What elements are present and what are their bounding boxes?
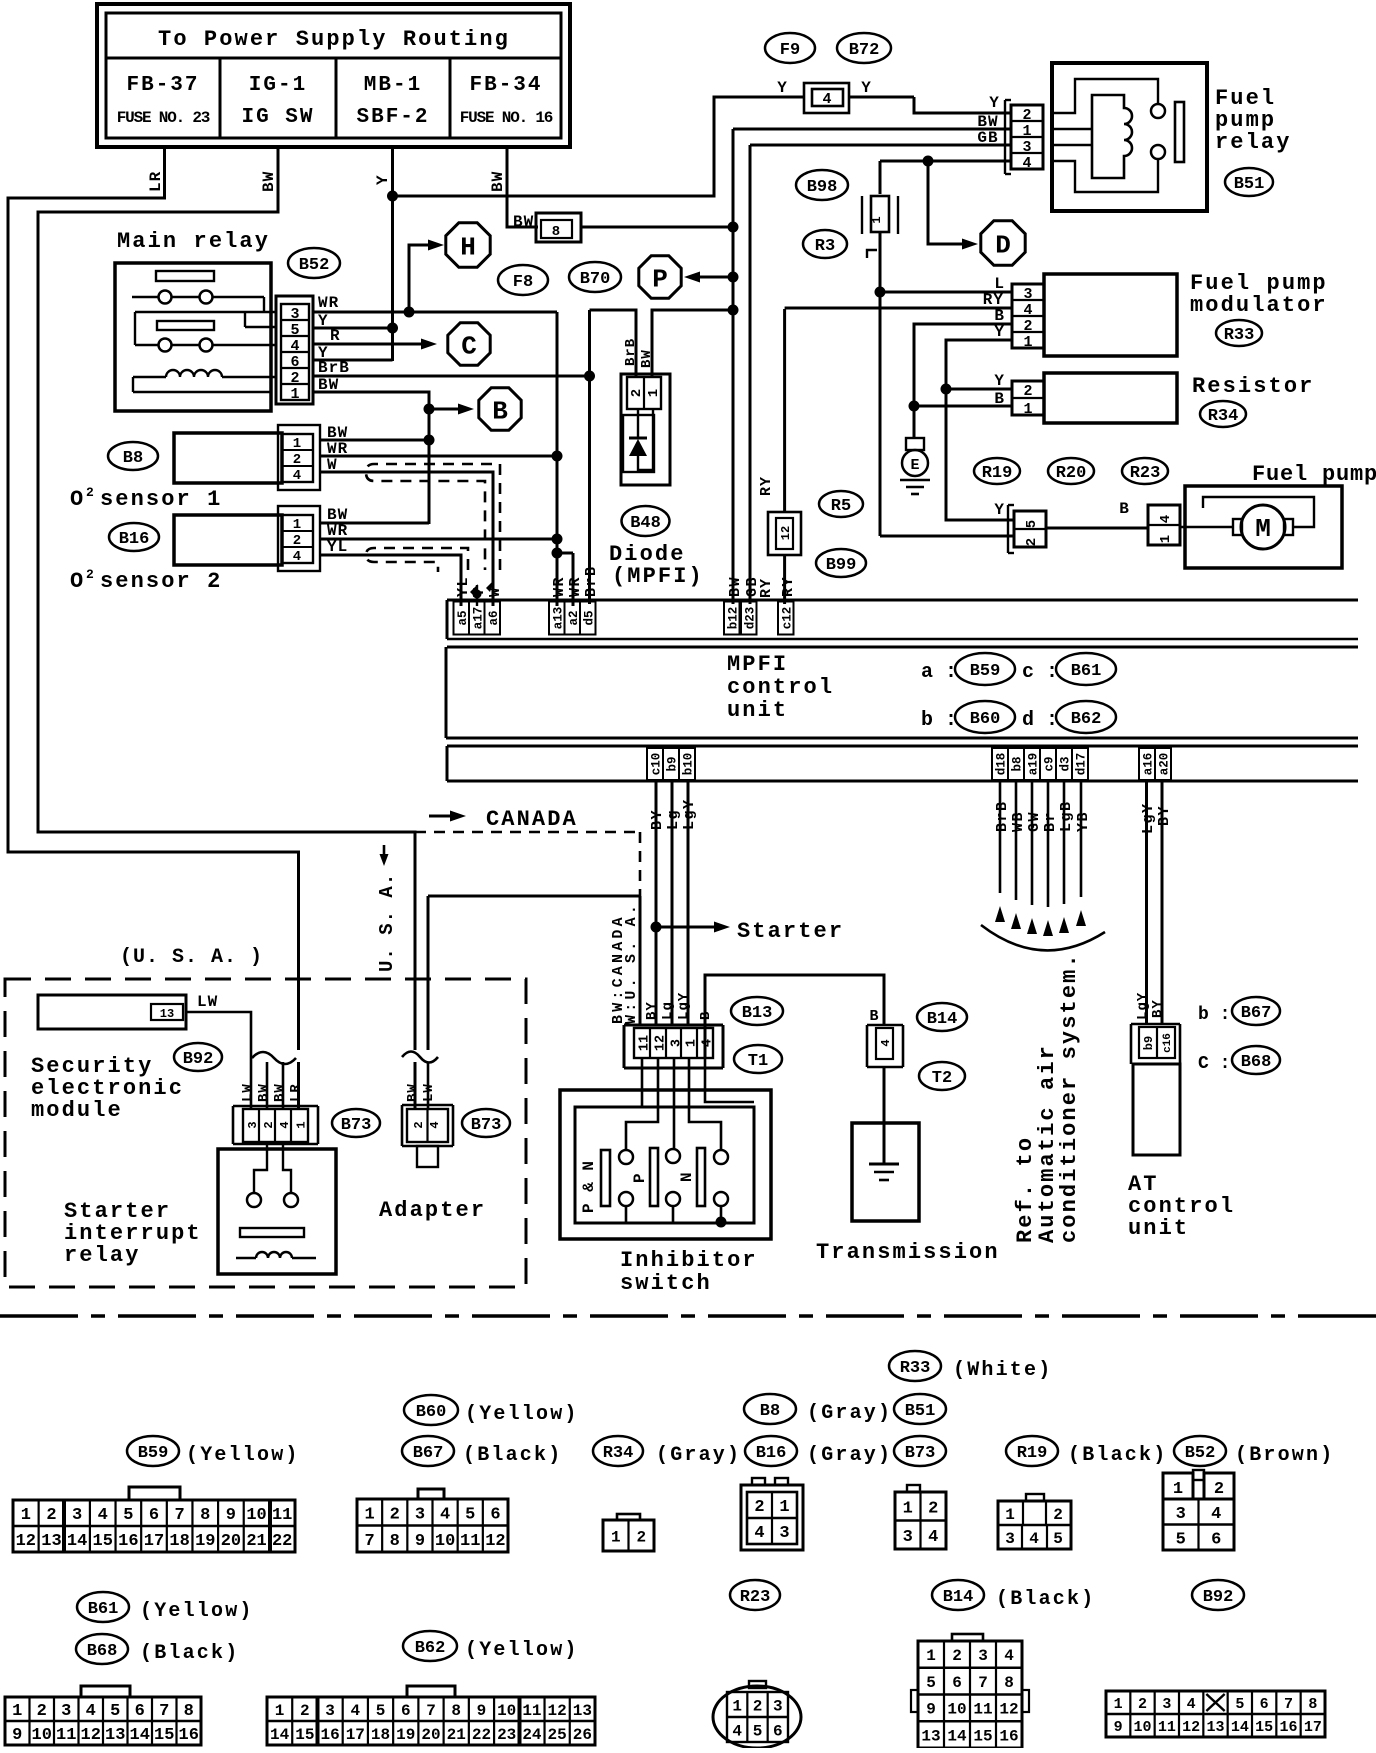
svg-text:2: 2 <box>754 1498 764 1517</box>
svg-text:LgY: LgY <box>1135 992 1151 1020</box>
svg-text:1: 1 <box>1023 334 1032 351</box>
svg-text:c10: c10 <box>650 753 664 776</box>
svg-text:2: 2 <box>37 1702 47 1721</box>
svg-text:10: 10 <box>947 1701 966 1719</box>
svg-text:12: 12 <box>999 1701 1018 1719</box>
svg-text:B59: B59 <box>138 1444 169 1463</box>
svg-text:16: 16 <box>999 1727 1018 1745</box>
svg-text:4: 4 <box>440 1505 450 1524</box>
svg-text:BY: BY <box>1150 999 1166 1018</box>
svg-text:B14: B14 <box>943 1588 974 1607</box>
svg-text:d23: d23 <box>743 607 757 630</box>
svg-text:3: 3 <box>290 306 299 323</box>
svg-text:6: 6 <box>1211 1530 1221 1549</box>
svg-text:6: 6 <box>135 1702 145 1721</box>
svg-text:9: 9 <box>226 1506 236 1525</box>
svg-text:22: 22 <box>272 1532 292 1551</box>
svg-text:1: 1 <box>275 1702 285 1720</box>
svg-text:22: 22 <box>472 1726 491 1744</box>
svg-text:BW: BW <box>256 1083 272 1102</box>
svg-text:4: 4 <box>1029 1530 1039 1548</box>
svg-text:1: 1 <box>293 436 301 452</box>
svg-text:Starter: Starter <box>737 919 844 944</box>
svg-text:20: 20 <box>221 1532 241 1551</box>
svg-text:BrB: BrB <box>318 359 350 377</box>
svg-text:BW: BW <box>405 1083 421 1102</box>
svg-text:IG-1: IG-1 <box>249 74 307 97</box>
svg-text:15: 15 <box>93 1532 113 1551</box>
svg-text:b8: b8 <box>1011 756 1025 771</box>
svg-text:1: 1 <box>1023 401 1032 418</box>
svg-text:(Yellow): (Yellow) <box>140 1600 254 1623</box>
svg-text:FB-37: FB-37 <box>126 74 199 97</box>
svg-text:B52: B52 <box>299 256 330 275</box>
svg-text:11: 11 <box>522 1702 541 1720</box>
svg-text:(Black): (Black) <box>463 1444 562 1467</box>
svg-text:module: module <box>31 1098 123 1123</box>
svg-text:R20: R20 <box>1056 464 1087 483</box>
svg-text:11: 11 <box>272 1506 292 1525</box>
svg-text:5: 5 <box>753 1722 763 1740</box>
svg-text:15: 15 <box>973 1727 992 1745</box>
svg-text:(Black): (Black) <box>996 1588 1095 1611</box>
svg-text:O: O <box>70 487 83 512</box>
svg-text:conditioner system.: conditioner system. <box>1057 952 1082 1243</box>
svg-text:13: 13 <box>1206 1719 1224 1736</box>
svg-text:W: W <box>487 586 504 597</box>
svg-text:8: 8 <box>552 224 560 240</box>
svg-text:B92: B92 <box>1203 1588 1234 1607</box>
svg-text:B62: B62 <box>1071 710 1102 729</box>
svg-text:2: 2 <box>86 567 94 582</box>
svg-text:11: 11 <box>973 1701 992 1719</box>
svg-text:b10: b10 <box>682 753 696 776</box>
svg-text:CANADA: CANADA <box>486 807 578 832</box>
svg-text:12: 12 <box>654 1035 669 1051</box>
svg-text:2: 2 <box>952 1647 962 1665</box>
svg-text:19: 19 <box>195 1532 215 1551</box>
svg-text:BrB: BrB <box>583 565 600 597</box>
svg-text:O: O <box>70 569 83 594</box>
svg-text:B60: B60 <box>416 1403 447 1422</box>
svg-text:7: 7 <box>426 1702 436 1720</box>
svg-text:16: 16 <box>179 1726 199 1745</box>
svg-text:4: 4 <box>879 1039 893 1046</box>
svg-text:YL: YL <box>455 576 472 597</box>
svg-text:B51: B51 <box>1234 175 1265 194</box>
svg-text:26: 26 <box>573 1726 592 1744</box>
svg-text:3: 3 <box>72 1506 82 1525</box>
svg-text:WR: WR <box>567 576 584 597</box>
svg-text:3: 3 <box>670 1039 685 1047</box>
svg-text:a6: a6 <box>487 610 501 625</box>
svg-text:a20: a20 <box>1158 753 1172 776</box>
svg-text:15: 15 <box>1255 1719 1273 1736</box>
svg-text:1: 1 <box>293 517 301 533</box>
svg-text:19: 19 <box>396 1726 415 1744</box>
svg-text:N: N <box>678 1172 696 1182</box>
svg-text:d17: d17 <box>1075 753 1089 776</box>
svg-text:R19: R19 <box>1017 1444 1048 1463</box>
svg-text:12: 12 <box>779 526 793 540</box>
svg-text:LW: LW <box>421 1083 437 1102</box>
svg-text:2: 2 <box>262 1121 276 1128</box>
svg-text:a5: a5 <box>456 610 470 625</box>
svg-text:modulator: modulator <box>1190 293 1328 318</box>
svg-text:LgY: LgY <box>1140 802 1157 834</box>
svg-text:2: 2 <box>300 1702 310 1720</box>
svg-text:4: 4 <box>293 549 301 565</box>
svg-text:LgY: LgY <box>676 992 692 1020</box>
svg-text:5: 5 <box>1053 1530 1063 1548</box>
svg-text:2: 2 <box>636 1528 646 1546</box>
svg-text:relay: relay <box>64 1243 141 1268</box>
svg-text:2: 2 <box>1214 1480 1224 1499</box>
svg-text:a :: a : <box>921 661 957 684</box>
svg-text:Fuel pump: Fuel pump <box>1252 462 1376 487</box>
svg-text:B72: B72 <box>849 41 880 60</box>
svg-text:B68: B68 <box>87 1642 118 1661</box>
svg-text:Y: Y <box>994 501 1004 519</box>
svg-text:B99: B99 <box>826 556 857 575</box>
svg-text:E: E <box>910 457 919 474</box>
svg-text:1: 1 <box>779 1498 789 1517</box>
svg-text:sensor 2: sensor 2 <box>100 569 222 594</box>
svg-text:c12: c12 <box>780 607 794 630</box>
svg-text:LgY: LgY <box>681 798 698 830</box>
svg-text:2: 2 <box>629 389 645 397</box>
svg-text:a19: a19 <box>1027 753 1041 776</box>
svg-text:T2: T2 <box>932 1069 952 1088</box>
svg-text:LR: LR <box>147 171 165 192</box>
svg-text:2: 2 <box>412 1121 426 1128</box>
svg-text:17: 17 <box>1304 1719 1322 1736</box>
svg-text:8: 8 <box>1308 1696 1317 1713</box>
svg-text:LW: LW <box>197 993 218 1011</box>
svg-text:13: 13 <box>41 1532 61 1551</box>
svg-text:BW: BW <box>727 576 744 597</box>
svg-text:20: 20 <box>421 1726 440 1744</box>
svg-text:Br: Br <box>1042 811 1059 832</box>
svg-text:P & N: P & N <box>580 1160 598 1213</box>
svg-text:4: 4 <box>351 1702 361 1720</box>
svg-text:WR: WR <box>551 576 568 597</box>
svg-text:1: 1 <box>926 1647 936 1665</box>
svg-text:Y: Y <box>994 323 1004 341</box>
svg-text:B70: B70 <box>580 270 611 289</box>
svg-text:switch: switch <box>620 1271 712 1296</box>
svg-text:7: 7 <box>159 1702 169 1721</box>
svg-text:Resistor: Resistor <box>1192 374 1314 399</box>
svg-text:3: 3 <box>415 1505 425 1524</box>
svg-text:3: 3 <box>1023 286 1032 303</box>
svg-text:B73: B73 <box>905 1444 936 1463</box>
svg-text:4: 4 <box>1211 1505 1221 1524</box>
svg-text:25: 25 <box>548 1726 567 1744</box>
svg-text:14: 14 <box>67 1532 87 1551</box>
svg-text:3: 3 <box>1162 1696 1171 1713</box>
svg-text:B14: B14 <box>927 1010 958 1029</box>
svg-text:21: 21 <box>246 1532 266 1551</box>
svg-text:6: 6 <box>490 1505 500 1524</box>
svg-text:16: 16 <box>1279 1719 1297 1736</box>
svg-text:13: 13 <box>921 1727 940 1745</box>
svg-text:6: 6 <box>401 1702 411 1720</box>
svg-text:10: 10 <box>497 1702 516 1720</box>
svg-text:6: 6 <box>290 354 299 371</box>
svg-text:R33: R33 <box>900 1359 931 1378</box>
svg-text:1: 1 <box>1158 535 1174 543</box>
svg-text:12: 12 <box>485 1532 505 1551</box>
svg-text:8: 8 <box>184 1702 194 1721</box>
svg-text:Y: Y <box>989 94 999 112</box>
svg-text:To Power Supply Routing: To Power Supply Routing <box>158 27 510 52</box>
svg-text:5: 5 <box>1235 1696 1244 1713</box>
svg-text:9: 9 <box>1114 1719 1123 1736</box>
svg-text:c16: c16 <box>1162 1033 1174 1053</box>
svg-text:Y: Y <box>994 372 1004 390</box>
svg-text:a16: a16 <box>1142 753 1156 776</box>
svg-text:21: 21 <box>447 1726 466 1744</box>
svg-text:6: 6 <box>1260 1696 1269 1713</box>
svg-text:BW: BW <box>489 171 507 192</box>
svg-text:(Gray): (Gray) <box>807 1444 892 1467</box>
svg-text:3: 3 <box>325 1702 335 1720</box>
svg-text:1: 1 <box>611 1528 621 1546</box>
svg-text:(U. S. A. ): (U. S. A. ) <box>120 946 263 969</box>
svg-text:4: 4 <box>1022 155 1031 172</box>
svg-text:WB: WB <box>1010 811 1027 832</box>
svg-text:C: C <box>461 331 477 361</box>
svg-text:1: 1 <box>1022 123 1031 140</box>
svg-text:GW: GW <box>1026 811 1043 832</box>
svg-text:b :: b : <box>921 709 957 732</box>
svg-text:B52: B52 <box>1185 1444 1216 1463</box>
svg-text:6: 6 <box>149 1506 159 1525</box>
svg-text:2: 2 <box>1053 1506 1063 1524</box>
svg-text:control: control <box>727 675 834 700</box>
svg-text:(White): (White) <box>953 1359 1052 1382</box>
svg-text:B16: B16 <box>756 1444 787 1463</box>
svg-text:LW: LW <box>240 1083 256 1102</box>
svg-text:C :: C : <box>1198 1054 1230 1074</box>
svg-text:a2: a2 <box>567 610 581 625</box>
svg-text:7: 7 <box>175 1506 185 1525</box>
svg-text:1: 1 <box>12 1702 22 1721</box>
svg-text:14: 14 <box>1231 1719 1249 1736</box>
svg-text:17: 17 <box>144 1532 164 1551</box>
svg-text:13: 13 <box>573 1702 592 1720</box>
svg-text:Lg: Lg <box>660 1001 676 1020</box>
svg-text:d18: d18 <box>995 753 1009 776</box>
svg-text:B67: B67 <box>1241 1004 1272 1023</box>
svg-text:11: 11 <box>1158 1719 1176 1736</box>
svg-text:Adapter: Adapter <box>379 1198 486 1223</box>
svg-text:7: 7 <box>978 1674 988 1692</box>
svg-text:1: 1 <box>870 216 884 223</box>
svg-text:B16: B16 <box>119 530 150 549</box>
svg-text:2: 2 <box>1023 318 1032 335</box>
svg-text:R34: R34 <box>603 1444 634 1463</box>
svg-text:B: B <box>994 390 1004 408</box>
svg-text:10: 10 <box>32 1726 52 1745</box>
svg-text:11: 11 <box>638 1035 653 1051</box>
svg-text:2: 2 <box>390 1505 400 1524</box>
svg-text:a13: a13 <box>551 607 565 630</box>
svg-text:4: 4 <box>1158 515 1174 523</box>
svg-text:(Black): (Black) <box>140 1642 239 1665</box>
svg-text:IG SW: IG SW <box>241 106 314 129</box>
svg-text:3: 3 <box>246 1121 260 1128</box>
svg-text:FB-34: FB-34 <box>469 74 542 97</box>
svg-text:BY: BY <box>649 809 666 830</box>
svg-text:unit: unit <box>727 698 788 723</box>
svg-text:4: 4 <box>98 1506 108 1525</box>
svg-text:(Yellow): (Yellow) <box>465 1403 579 1426</box>
svg-text:RY: RY <box>758 476 775 496</box>
svg-text:FUSE NO. 23: FUSE NO. 23 <box>117 109 210 127</box>
svg-text:5: 5 <box>376 1702 386 1720</box>
svg-text:B48: B48 <box>630 514 661 533</box>
svg-text:6: 6 <box>773 1722 783 1740</box>
svg-text:(Black): (Black) <box>1068 1444 1167 1467</box>
svg-text:FUSE NO. 16: FUSE NO. 16 <box>460 109 553 127</box>
svg-text:2: 2 <box>1023 383 1032 400</box>
svg-text:a17: a17 <box>471 607 485 630</box>
svg-text:1: 1 <box>1173 1480 1183 1499</box>
svg-text:1: 1 <box>290 386 299 403</box>
svg-text:B8: B8 <box>760 1402 780 1421</box>
svg-text:BW: BW <box>272 1083 288 1102</box>
svg-text:SBF-2: SBF-2 <box>356 106 429 129</box>
svg-text:d5: d5 <box>582 610 596 625</box>
svg-text:R23: R23 <box>740 1588 771 1607</box>
svg-text:3: 3 <box>61 1702 71 1721</box>
svg-text:1: 1 <box>21 1506 31 1525</box>
svg-text:16: 16 <box>320 1726 339 1744</box>
svg-text:R19: R19 <box>982 464 1013 483</box>
svg-text:B: B <box>492 396 508 426</box>
svg-text:M: M <box>1255 514 1271 544</box>
svg-text:B62: B62 <box>415 1639 446 1658</box>
svg-text:5: 5 <box>926 1674 936 1692</box>
svg-text:Main relay: Main relay <box>117 229 270 254</box>
svg-text:12: 12 <box>16 1532 36 1551</box>
svg-text:3: 3 <box>779 1524 789 1543</box>
svg-text:17: 17 <box>346 1726 365 1744</box>
svg-text:3: 3 <box>1022 139 1031 156</box>
svg-text:2: 2 <box>293 533 301 549</box>
svg-text:16: 16 <box>118 1532 138 1551</box>
svg-text:F8: F8 <box>513 273 533 292</box>
svg-text:2: 2 <box>290 370 299 387</box>
svg-text:1: 1 <box>646 389 662 397</box>
svg-text:B73: B73 <box>471 1116 502 1135</box>
svg-text:3: 3 <box>903 1528 913 1547</box>
svg-text:R: R <box>330 327 340 345</box>
svg-text:YB: YB <box>1075 811 1092 832</box>
svg-text:R3: R3 <box>815 237 835 256</box>
svg-text:(Brown): (Brown) <box>1235 1444 1334 1467</box>
svg-text:6: 6 <box>952 1674 962 1692</box>
svg-text:5: 5 <box>123 1506 133 1525</box>
svg-text:B73: B73 <box>341 1116 372 1135</box>
svg-text:12: 12 <box>81 1726 101 1745</box>
svg-text:MPFI: MPFI <box>727 652 788 677</box>
svg-text:B60: B60 <box>970 710 1001 729</box>
svg-text:RY: RY <box>780 576 797 597</box>
svg-text:MB-1: MB-1 <box>364 74 422 97</box>
svg-text:1: 1 <box>364 1505 374 1524</box>
svg-text:Lg: Lg <box>665 809 682 830</box>
svg-text:B61: B61 <box>88 1600 119 1619</box>
svg-text:10: 10 <box>435 1532 455 1551</box>
svg-text:4: 4 <box>290 338 299 355</box>
svg-text:R33: R33 <box>1224 326 1255 345</box>
svg-text:1: 1 <box>1005 1506 1015 1524</box>
svg-text:9: 9 <box>415 1532 425 1551</box>
svg-text:5: 5 <box>1176 1530 1186 1549</box>
svg-text:B: B <box>869 1008 878 1025</box>
svg-text:B51: B51 <box>905 1402 936 1421</box>
svg-text:13: 13 <box>160 1007 174 1021</box>
svg-text:3: 3 <box>978 1647 988 1665</box>
svg-text:BY: BY <box>644 1001 660 1020</box>
svg-text:d3: d3 <box>1059 756 1073 771</box>
svg-text:4: 4 <box>278 1121 292 1128</box>
svg-text:B: B <box>1119 500 1129 518</box>
svg-text:BrB: BrB <box>994 800 1011 832</box>
svg-text:1: 1 <box>1114 1696 1123 1713</box>
svg-text:LgB: LgB <box>1058 800 1075 832</box>
svg-text:(Yellow): (Yellow) <box>186 1444 300 1467</box>
svg-text:Y: Y <box>777 79 787 97</box>
svg-text:2: 2 <box>46 1506 56 1525</box>
svg-text:11: 11 <box>56 1726 76 1745</box>
svg-text:9: 9 <box>12 1726 22 1745</box>
svg-text:relay: relay <box>1215 130 1292 155</box>
svg-text:18: 18 <box>169 1532 189 1551</box>
svg-text:5: 5 <box>110 1702 120 1721</box>
svg-text:2: 2 <box>928 1499 938 1518</box>
svg-text:10: 10 <box>246 1506 266 1525</box>
svg-text:1: 1 <box>732 1697 742 1715</box>
svg-text:B13: B13 <box>742 1004 773 1023</box>
svg-text:BrB: BrB <box>623 338 639 366</box>
svg-text:R23: R23 <box>1130 464 1161 483</box>
svg-text:4: 4 <box>1004 1647 1014 1665</box>
svg-text:3: 3 <box>1176 1505 1186 1524</box>
svg-text:23: 23 <box>497 1726 516 1744</box>
svg-text:2: 2 <box>293 452 301 468</box>
svg-text:2: 2 <box>753 1697 763 1715</box>
svg-text:1: 1 <box>295 1121 309 1128</box>
svg-text:Transmission: Transmission <box>816 1240 1000 1265</box>
svg-text:Inhibitor: Inhibitor <box>620 1248 758 1273</box>
svg-text:9: 9 <box>477 1702 487 1720</box>
svg-text:4: 4 <box>293 468 301 484</box>
svg-text:B61: B61 <box>1071 662 1102 681</box>
svg-text:Y: Y <box>374 174 392 185</box>
svg-text:4: 4 <box>1187 1696 1196 1713</box>
svg-text:Y: Y <box>861 79 871 97</box>
svg-text:GB: GB <box>744 576 761 597</box>
svg-text:4: 4 <box>701 1039 716 1047</box>
svg-text:B92: B92 <box>183 1050 214 1069</box>
svg-text:P: P <box>652 264 668 294</box>
svg-text:7: 7 <box>364 1532 374 1551</box>
svg-text:(Yellow): (Yellow) <box>465 1639 579 1662</box>
